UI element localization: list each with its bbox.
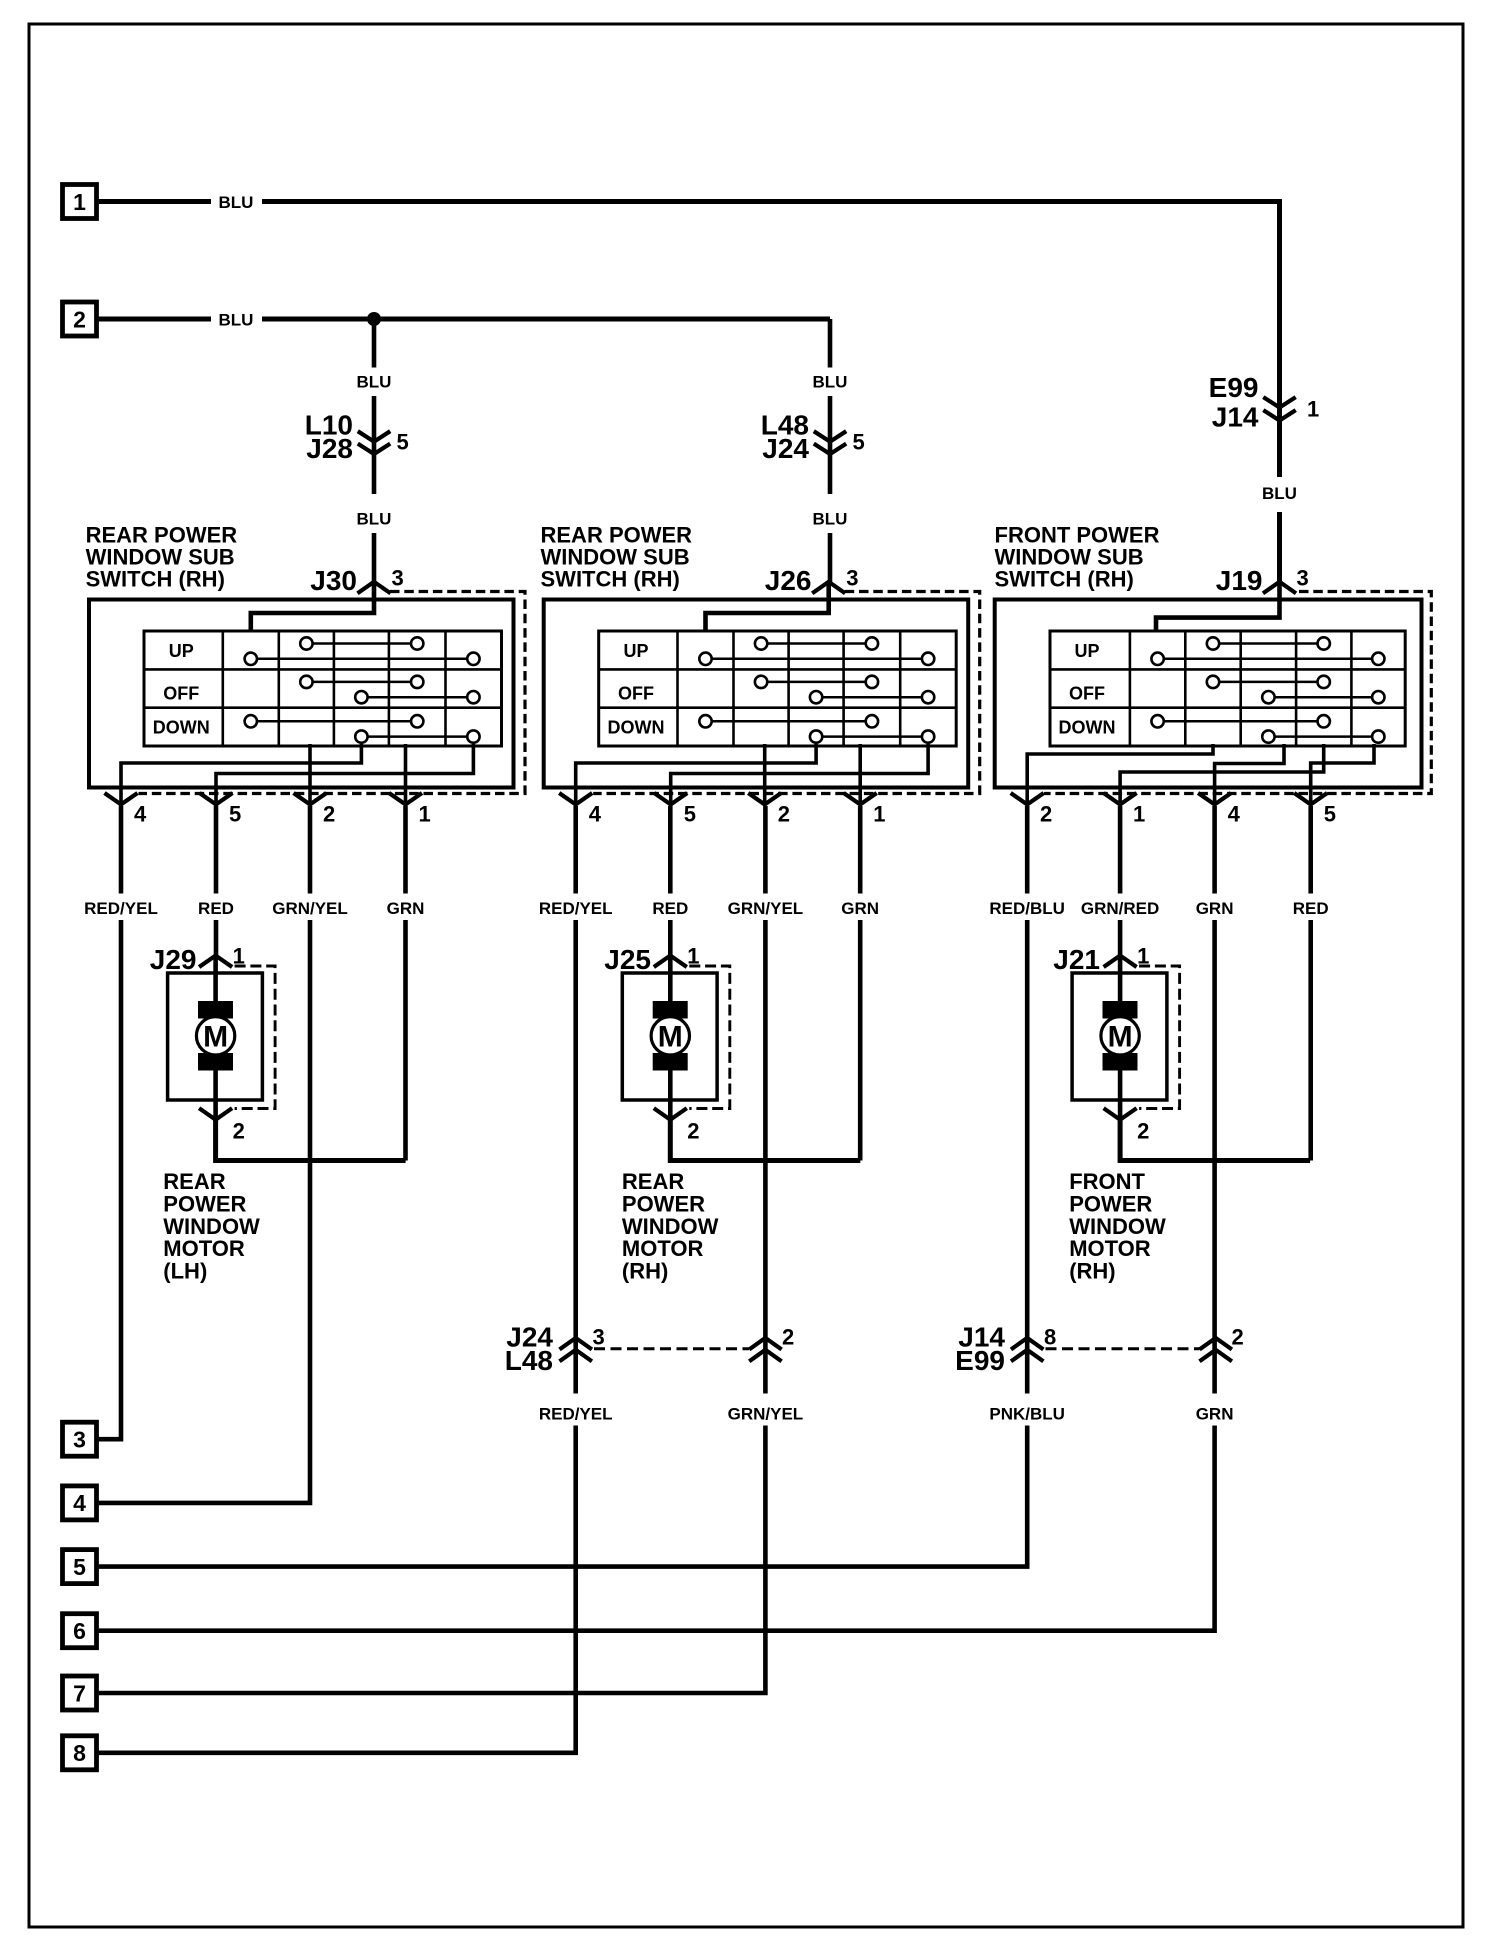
pin 3 chevron: [1263, 582, 1296, 594]
svg-text:WINDOW: WINDOW: [163, 1214, 260, 1239]
wire RED/YEL switch J26 pin4 to J24/L48 to node 8: [99, 806, 576, 1753]
pin 5 chevron: [1294, 793, 1327, 805]
svg-text:RED: RED: [198, 899, 234, 918]
svg-text:6: 6: [73, 1618, 86, 1644]
svg-text:4: 4: [1228, 802, 1241, 827]
svg-text:5: 5: [73, 1554, 86, 1580]
connector pairing dashed link: [594, 1347, 749, 1350]
wire RED switch J30 pin5 to motor J29: [214, 806, 219, 956]
wire RED switch J26 pin5 to motor J25: [668, 806, 673, 956]
wire GRN switch J30 pin1 to motor J29 pin2: [403, 806, 408, 1161]
node 8: [63, 1736, 97, 1770]
svg-text:WINDOW: WINDOW: [1069, 1214, 1166, 1239]
svg-text:POWER: POWER: [163, 1191, 246, 1216]
svg-text:J28: J28: [306, 433, 353, 464]
svg-text:SWITCH (RH): SWITCH (RH): [995, 566, 1134, 591]
svg-text:1: 1: [1133, 802, 1145, 827]
svg-text:REAR: REAR: [163, 1169, 225, 1194]
svg-text:RED: RED: [652, 899, 688, 918]
svg-text:WINDOW: WINDOW: [622, 1214, 719, 1239]
svg-text:POWER: POWER: [622, 1191, 705, 1216]
svg-text:J25: J25: [604, 944, 651, 975]
svg-text:3: 3: [846, 566, 858, 591]
svg-text:SWITCH (RH): SWITCH (RH): [541, 566, 680, 591]
pin 1 chevron: [1104, 793, 1137, 805]
switch contacts UP row: [1213, 642, 1324, 645]
motor J25 REAR POWER WINDOW MOTOR (RH): [622, 944, 860, 1161]
switch contacts OFF row: [1213, 681, 1324, 684]
svg-text:2: 2: [1040, 802, 1052, 827]
connector pairing dashed link: [1046, 1347, 1200, 1350]
node 1: [63, 185, 97, 219]
connector J14/E99 pin 2: [1200, 1338, 1232, 1350]
wire GRN switch J26 pin1 to motor J25 pin2: [858, 806, 863, 1161]
connector J24/L48 pin 2: [749, 1338, 781, 1350]
svg-text:OFF: OFF: [1069, 684, 1105, 704]
svg-text:DOWN: DOWN: [1059, 718, 1116, 738]
svg-text:RED/BLU: RED/BLU: [989, 899, 1065, 918]
svg-text:MOTOR: MOTOR: [622, 1236, 704, 1261]
svg-text:GRN: GRN: [1196, 1405, 1234, 1424]
node 4: [63, 1486, 97, 1520]
svg-text:L48: L48: [505, 1345, 553, 1376]
wire GRN/RED switch J19 pin1 to motor J21: [1118, 806, 1123, 956]
wire RED/BLU switch J19 pin2 to J14/E99 to PNK/BLU node 5: [99, 806, 1027, 1567]
wire to pin 4: [1215, 744, 1284, 806]
contact grid: [1050, 631, 1405, 746]
wire RED/YEL switch J30 pin4 to node 3: [99, 806, 121, 1439]
svg-text:5: 5: [397, 430, 409, 455]
svg-text:SWITCH (RH): SWITCH (RH): [86, 566, 225, 591]
svg-text:2: 2: [1232, 1325, 1244, 1350]
svg-text:J26: J26: [765, 565, 812, 596]
svg-text:8: 8: [73, 1740, 86, 1766]
node 2: [63, 302, 97, 336]
svg-text:RED/YEL: RED/YEL: [84, 899, 158, 918]
svg-text:(LH): (LH): [163, 1259, 207, 1284]
switch J26 REAR POWER WINDOW SUB SWITCH (RH): [544, 582, 980, 827]
node 6: [63, 1614, 97, 1648]
svg-text:8: 8: [1044, 1325, 1056, 1350]
svg-text:RED/YEL: RED/YEL: [539, 899, 613, 918]
svg-text:FRONT: FRONT: [1069, 1169, 1145, 1194]
svg-text:E99: E99: [955, 1345, 1005, 1376]
motor J29 REAR POWER WINDOW MOTOR (LH): [168, 944, 406, 1161]
wire pin3 entry: [1156, 582, 1280, 632]
svg-text:J19: J19: [1216, 565, 1263, 596]
svg-text:J21: J21: [1053, 944, 1100, 975]
svg-text:7: 7: [73, 1680, 86, 1706]
svg-text:REAR: REAR: [622, 1169, 684, 1194]
svg-text:GRN/RED: GRN/RED: [1081, 899, 1159, 918]
switch J19 FRONT POWER WINDOW SUB SWITCH (RH): [995, 582, 1432, 827]
svg-text:BLU: BLU: [357, 373, 392, 392]
wire to pin 5: [1311, 744, 1374, 806]
svg-text:3: 3: [392, 566, 404, 591]
wire BLU to L48/J24 and J26 pin3: [828, 319, 833, 582]
wire RED switch J19 pin5 to motor J21 pin2: [1308, 806, 1313, 1161]
svg-text:(RH): (RH): [622, 1259, 668, 1284]
node 3: [63, 1422, 97, 1456]
svg-text:3: 3: [1297, 566, 1309, 591]
svg-text:J24: J24: [762, 433, 809, 464]
svg-text:5: 5: [1324, 802, 1336, 827]
svg-text:4: 4: [73, 1490, 86, 1516]
switch contacts DOWN row: [1158, 720, 1324, 723]
svg-text:(RH): (RH): [1069, 1259, 1115, 1284]
wire to pin 1: [1120, 744, 1324, 806]
svg-text:3: 3: [73, 1427, 86, 1453]
switch body box: [995, 600, 1422, 788]
svg-text:BLU: BLU: [813, 510, 848, 529]
svg-text:2: 2: [73, 306, 86, 332]
svg-text:GRN: GRN: [387, 899, 425, 918]
switch J30 REAR POWER WINDOW SUB SWITCH (RH): [89, 582, 525, 827]
svg-text:5: 5: [853, 430, 865, 455]
svg-text:GRN/YEL: GRN/YEL: [272, 899, 348, 918]
svg-text:BLU: BLU: [1262, 484, 1297, 503]
node 7: [63, 1676, 97, 1710]
pin 4 chevron: [1198, 793, 1231, 805]
svg-text:BLU: BLU: [813, 373, 848, 392]
wire BLU node2 to L48/J24 branch: [99, 317, 830, 322]
svg-text:BLU: BLU: [357, 510, 392, 529]
pin 2 chevron: [1011, 793, 1044, 805]
svg-text:RED/YEL: RED/YEL: [539, 1405, 613, 1424]
svg-text:E99: E99: [1209, 372, 1259, 403]
node 5: [63, 1550, 97, 1584]
svg-text:2: 2: [782, 1325, 794, 1350]
svg-text:J30: J30: [310, 565, 357, 596]
svg-text:J29: J29: [150, 944, 197, 975]
junction: [367, 312, 381, 326]
wire BLU node1 to E99/J14 and J19 pin3: [99, 202, 1280, 582]
svg-text:1: 1: [1307, 397, 1319, 422]
connector dashed outline: [1044, 592, 1431, 794]
svg-text:GRN: GRN: [841, 899, 879, 918]
wire BLU branch to L10/J28 and J30 pin3: [372, 319, 377, 582]
svg-text:J14: J14: [1212, 402, 1259, 433]
wire to pin 2: [1027, 744, 1213, 806]
wire GRN/YEL switch J30 pin2 to node 4: [99, 806, 310, 1503]
svg-text:GRN/YEL: GRN/YEL: [728, 1405, 804, 1424]
svg-text:GRN: GRN: [1196, 899, 1234, 918]
svg-text:BLU: BLU: [219, 310, 254, 329]
wire GRN switch J19 pin4 to node 6: [99, 806, 1215, 1631]
svg-text:RED: RED: [1293, 899, 1329, 918]
svg-text:UP: UP: [1074, 641, 1099, 661]
motor J21 FRONT POWER WINDOW MOTOR (RH): [1072, 944, 1310, 1161]
svg-text:MOTOR: MOTOR: [1069, 1236, 1151, 1261]
svg-text:MOTOR: MOTOR: [163, 1236, 245, 1261]
svg-text:BLU: BLU: [219, 193, 254, 212]
svg-text:GRN/YEL: GRN/YEL: [728, 899, 804, 918]
svg-text:POWER: POWER: [1069, 1191, 1152, 1216]
wire GRN/YEL switch J26 pin2 to node 7: [99, 806, 766, 1693]
svg-text:3: 3: [593, 1325, 605, 1350]
svg-text:PNK/BLU: PNK/BLU: [989, 1405, 1065, 1424]
svg-text:1: 1: [73, 189, 86, 215]
